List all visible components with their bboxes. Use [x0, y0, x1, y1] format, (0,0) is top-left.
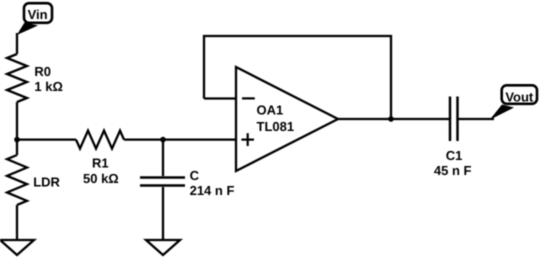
svg-text:R0: R0 [34, 64, 51, 79]
svg-text:OA1: OA1 [257, 103, 284, 118]
svg-text:C: C [190, 168, 200, 183]
svg-text:C1: C1 [446, 148, 463, 163]
svg-text:Vin: Vin [28, 7, 48, 22]
svg-text:1 kΩ: 1 kΩ [34, 79, 63, 94]
svg-text:214 n F: 214 n F [190, 183, 235, 198]
svg-text:45 n F: 45 n F [434, 163, 472, 178]
svg-text:50 kΩ: 50 kΩ [83, 171, 119, 186]
svg-text:Vout: Vout [505, 90, 534, 105]
svg-text:LDR: LDR [33, 175, 60, 190]
svg-text:TL081: TL081 [257, 119, 295, 134]
svg-text:R1: R1 [92, 156, 109, 171]
